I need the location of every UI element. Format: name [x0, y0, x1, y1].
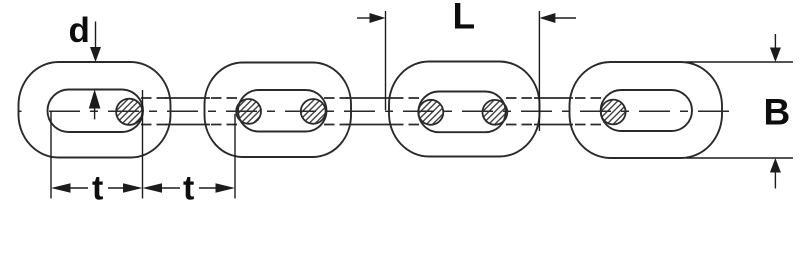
- chain link 4 inner hole: [601, 90, 692, 131]
- wire cross-section circle (link2 right): [301, 99, 326, 124]
- svg-text:t: t: [183, 170, 194, 208]
- wire visible line bottom (gap 3-4): [534, 124, 573, 126]
- wire visible line top (gap 1-2): [165, 97, 210, 99]
- B arrowhead up (onto bottom line): [770, 158, 781, 173]
- L arrow shaft right: [553, 17, 576, 19]
- t extension line 3: [234, 114, 236, 199]
- d dimension arrow inside shaft: [94, 107, 96, 119]
- wire visible line bottom (gap 1-2): [165, 124, 210, 126]
- wire cross-section circle (link3 right): [483, 100, 508, 125]
- svg-text:L: L: [453, 0, 476, 37]
- wire hidden line top (link1 right): [141, 97, 168, 99]
- t1 arrow shaft left: [66, 187, 88, 189]
- B arrow shaft top: [774, 34, 776, 49]
- d dimension arrow shaft (outside, above link1): [95, 22, 97, 50]
- t1 arrowhead right: [123, 183, 143, 192]
- wire cross-section circle (link3 left): [418, 100, 443, 125]
- t2 arrow shaft right: [199, 187, 220, 189]
- svg-text:t: t: [92, 170, 103, 208]
- wire hidden line top (link3 right): [506, 97, 536, 99]
- d arrowhead down (onto link1 top): [90, 47, 101, 62]
- wire hidden line bottom (link2 right): [324, 124, 348, 126]
- wire hidden line top (link3 left): [391, 97, 419, 99]
- wire hidden line bottom (link3 left): [391, 124, 419, 126]
- wire hidden line top (link4 left): [572, 97, 601, 99]
- t extension line 2: [142, 90, 144, 199]
- wire hidden line bottom (link1 right): [141, 124, 168, 126]
- d arrowhead up (inside, onto hole top): [89, 89, 101, 108]
- t1 arrowhead left: [51, 183, 71, 192]
- chain link 2 outer: [205, 63, 352, 158]
- t2 arrowhead left: [143, 183, 163, 192]
- wire cross-section circle (link2 left): [236, 99, 261, 124]
- wire cross-section circle (link1 right): [116, 99, 142, 125]
- svg-text:B: B: [764, 91, 791, 132]
- wire visible line bottom (gap 2-3): [346, 124, 393, 126]
- t extension line 1: [50, 112, 52, 199]
- L arrowhead right (onto left ext line): [370, 13, 386, 23]
- chain link 1 outer: [19, 62, 171, 158]
- B arrow shaft bottom: [774, 171, 776, 189]
- wire hidden line bottom (link3 right): [506, 124, 536, 126]
- B dimension line bottom: [686, 157, 793, 159]
- chain link 2 inner hole: [238, 90, 327, 132]
- centerline axis: [18, 110, 22, 112]
- wire hidden line bottom (link2 left): [209, 124, 237, 126]
- L extension line right: [538, 11, 540, 131]
- wire hidden line top (link2 left): [209, 97, 237, 99]
- L arrowhead left (onto right ext line): [539, 13, 555, 23]
- chain link 3 inner hole: [418, 92, 505, 133]
- wire visible line top (gap 2-3): [346, 97, 393, 99]
- chain link 3 outer: [389, 62, 540, 157]
- B dimension line top: [686, 61, 793, 63]
- svg-text:d: d: [69, 11, 90, 50]
- t1 arrow shaft right: [108, 187, 127, 189]
- wire visible line top (gap 3-4): [534, 97, 573, 99]
- L extension line left: [385, 11, 387, 110]
- t2 arrowhead right: [216, 183, 236, 192]
- L arrow shaft left: [357, 17, 372, 19]
- wire cross-section circle (link4 left): [601, 100, 626, 125]
- B arrowhead down (onto top line): [770, 48, 781, 63]
- chain link 1 inner hole: [48, 90, 144, 133]
- wire hidden line bottom (link4 left): [572, 124, 601, 126]
- chain link 4 outer: [570, 62, 723, 158]
- wire hidden line top (link2 right): [324, 97, 348, 99]
- t2 arrow shaft left: [157, 187, 180, 189]
